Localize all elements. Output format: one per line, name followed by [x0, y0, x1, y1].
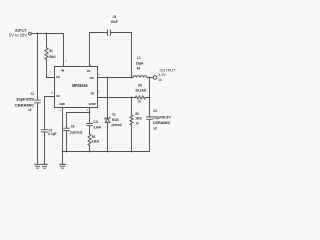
node R1/C2: [149, 97, 151, 99]
wire R4 to EN pin: [47, 60, 55, 78]
svg-text:SS: SS: [56, 94, 59, 98]
capacitor C2: [147, 117, 153, 119]
svg-text:D1: D1: [113, 112, 116, 116]
node rail C6: [66, 151, 68, 153]
wire C6 to ground rail: [66, 131, 68, 152]
resistor R2: [130, 98, 133, 126]
wire D1 to ground rail: [107, 122, 109, 151]
svg-text:C1: C1: [31, 92, 35, 96]
wire C1 branch: [37, 34, 39, 101]
svg-text:R2: R2: [136, 112, 139, 116]
node SW/BS: [131, 77, 133, 79]
svg-text:3A: 3A: [158, 77, 162, 82]
wire SS pin to C4: [45, 97, 55, 130]
ground (main rail): [60, 152, 66, 169]
svg-text:x2: x2: [153, 126, 157, 130]
wire C4 to ground: [44, 132, 46, 164]
resistor R4: [45, 48, 48, 60]
wire D1 branch: [107, 78, 109, 118]
node COMP split: [89, 112, 91, 114]
diode D1 schottky: [105, 117, 110, 122]
svg-text:C3: C3: [93, 120, 98, 124]
svg-text:GND: GND: [59, 102, 66, 106]
svg-text:MP28316: MP28316: [72, 83, 88, 88]
svg-text:26.1kΩ: 26.1kΩ: [135, 88, 146, 92]
wire C3 to R3: [89, 126, 91, 134]
ground (C4): [42, 164, 48, 168]
wire output vertical to C2: [149, 78, 151, 117]
wire C1 to ground: [37, 103, 39, 164]
wire input rail to IN pin: [32, 34, 64, 67]
node rail GND: [62, 151, 64, 153]
svg-text:10µH: 10µH: [136, 61, 144, 65]
node SW/D1: [107, 77, 109, 79]
wire R2 to ground rail: [131, 125, 133, 151]
svg-text:COMP: COMP: [89, 102, 96, 106]
svg-text:C6: C6: [71, 124, 75, 128]
svg-text:SW: SW: [90, 76, 94, 80]
capacitor C3: [87, 124, 93, 126]
svg-text:L1: L1: [137, 56, 140, 60]
svg-text:3.9nF: 3.9nF: [93, 126, 102, 130]
svg-text:EN: EN: [56, 75, 60, 79]
wire C2 to ground rail: [149, 120, 151, 152]
input terminal: [29, 32, 32, 35]
svg-text:BS: BS: [87, 69, 91, 73]
svg-text:1%: 1%: [138, 100, 142, 104]
node FB/R2: [131, 97, 133, 99]
wire R3 to ground rail: [89, 145, 91, 151]
wire C5 to SW node: [111, 33, 132, 78]
node input/C1 junction: [37, 33, 39, 35]
svg-text:(optional): (optional): [70, 131, 82, 135]
wire BS branch to C5: [90, 33, 107, 67]
svg-text:R1: R1: [138, 83, 142, 87]
svg-text:4A: 4A: [137, 67, 141, 71]
svg-text:C5: C5: [113, 15, 117, 19]
svg-text:5V to 18V: 5V to 18V: [9, 32, 27, 37]
svg-text:x2: x2: [28, 108, 31, 112]
svg-text:100kΩ: 100kΩ: [49, 55, 56, 59]
wire ground rail: [63, 151, 150, 153]
capacitor C4: [42, 130, 48, 132]
svg-text:22µF/6.3V: 22µF/6.3V: [153, 115, 172, 119]
node R4 junction: [46, 33, 48, 35]
svg-text:R4: R4: [49, 49, 52, 53]
svg-text:10nF: 10nF: [110, 20, 118, 24]
output terminal: [153, 76, 157, 80]
wire FB line: [98, 97, 136, 99]
wire COMP branch: [89, 108, 91, 124]
svg-text:1%: 1%: [136, 121, 140, 125]
node output junction: [149, 77, 151, 79]
svg-text:6.8kΩ: 6.8kΩ: [92, 140, 100, 144]
svg-text:CERAMIC: CERAMIC: [153, 121, 171, 125]
node rail R3: [89, 151, 91, 153]
svg-text:C2: C2: [153, 109, 157, 113]
wire SW line: [98, 77, 154, 79]
svg-text:0.1µF: 0.1µF: [48, 132, 57, 136]
svg-text:IN: IN: [61, 69, 64, 73]
wire COMP to C6: [67, 113, 90, 129]
svg-text:R3: R3: [92, 135, 96, 139]
svg-text:10µF/25V: 10µF/25V: [16, 98, 35, 102]
capacitor C6: [64, 128, 70, 130]
wire rail to R4: [46, 34, 48, 48]
svg-text:CERAMIC: CERAMIC: [15, 103, 35, 107]
inductor L1: [133, 76, 147, 78]
resistor R1: [135, 96, 149, 99]
capacitor C1: [35, 100, 41, 103]
svg-text:(optional): (optional): [112, 123, 122, 127]
svg-text:10kΩ: 10kΩ: [135, 117, 141, 121]
capacitor C5: [108, 30, 111, 35]
node rail D1: [107, 151, 109, 153]
resistor R3: [88, 134, 91, 145]
ground (C1): [35, 164, 41, 168]
IC U1 body MP28316: [55, 67, 98, 108]
svg-text:B130: B130: [112, 118, 119, 122]
node rail R2: [131, 151, 133, 153]
wire GND pin down: [62, 108, 64, 152]
